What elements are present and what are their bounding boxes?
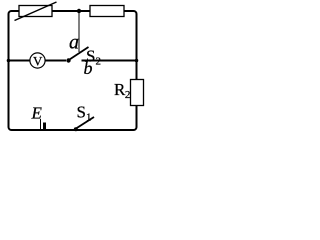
- switch S2 pivot dot: [66, 58, 70, 62]
- voltmeter V: [30, 53, 45, 68]
- svg-text:b: b: [84, 58, 93, 78]
- resistor R2 box (right side): [131, 80, 144, 106]
- wire vertical stub to contact a: [78, 11, 80, 52]
- svg-text:S1: S1: [77, 103, 92, 124]
- resistor box (top-right): [90, 6, 124, 17]
- battery cell long plate: [40, 119, 42, 131]
- rheostat R1 diagonal arrow: [15, 2, 57, 21]
- wire middle right segment: [82, 60, 137, 62]
- svg-text:R2: R2: [114, 80, 130, 101]
- node dot at left frame junction: [7, 59, 11, 63]
- switch S1 blade: [76, 117, 94, 129]
- node dot on top wire: [77, 9, 81, 13]
- svg-text:V: V: [33, 54, 43, 69]
- wire outer frame: [9, 11, 137, 130]
- switch S2 blade: [70, 47, 89, 60]
- svg-text:a: a: [69, 32, 79, 54]
- switch S1 contact dot: [74, 127, 78, 131]
- wire middle left segment: [9, 60, 67, 62]
- battery cell short thick plate: [43, 123, 46, 131]
- node dot at right frame junction: [135, 59, 139, 63]
- rheostat R1 box (top-left): [19, 6, 52, 17]
